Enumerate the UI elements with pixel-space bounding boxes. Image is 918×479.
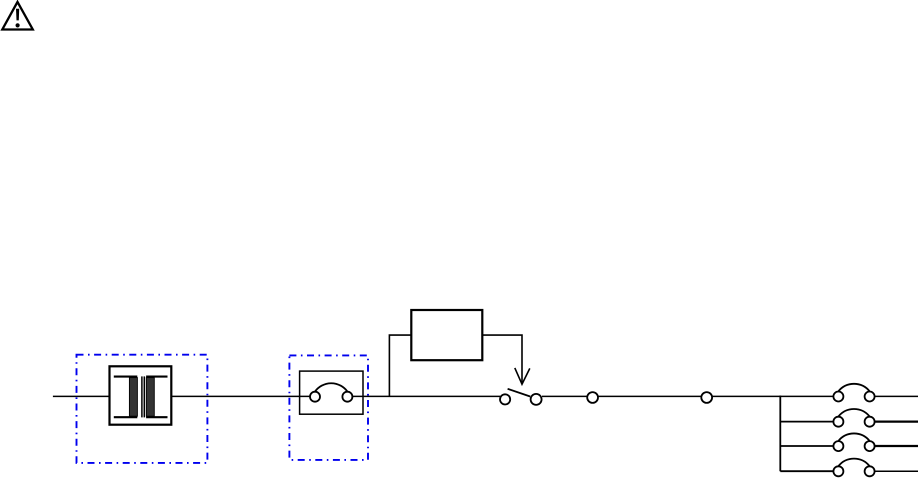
terminal node circle A: [587, 392, 598, 403]
wire: source lead-in: [53, 395, 110, 397]
fuse F5 (branch 4): [833, 459, 874, 477]
fuse F1 link: [310, 383, 352, 401]
branch wire 2: [780, 421, 833, 423]
wire: relay right lead with actuating arrow: [482, 335, 530, 384]
wire: branch 4 out: [875, 470, 918, 472]
wire: branch 2 out (heavy): [875, 421, 918, 423]
wire: branch 3 out (heavy): [875, 445, 918, 447]
fuse F2 (branch 1): [833, 384, 874, 402]
branch wire 3: [780, 445, 833, 447]
enclosure box 2 (dash-dot, fuse): [289, 355, 368, 460]
wire: branch 1 out: [875, 395, 918, 397]
warning triangle: [2, 2, 33, 30]
branch wire 4: [780, 470, 833, 472]
wire: transformer to fuse F1: [171, 395, 310, 397]
wire: relay left lead: [389, 335, 411, 396]
distribution bus bar: [779, 396, 781, 472]
relay K1 coil box: [411, 310, 482, 360]
fuse F4 (branch 3): [833, 433, 874, 451]
terminal node circle B: [701, 392, 712, 403]
fuse F1 box: [300, 371, 363, 414]
wire: switch to distribution: [542, 395, 834, 397]
wire: fuse F1 to switch S1: [352, 395, 500, 397]
switch S1: [500, 389, 542, 405]
transformer T1: [110, 366, 172, 424]
enclosure box 1 (dash-dot, transformer): [77, 355, 208, 463]
fuse F3 (branch 2): [833, 409, 874, 427]
